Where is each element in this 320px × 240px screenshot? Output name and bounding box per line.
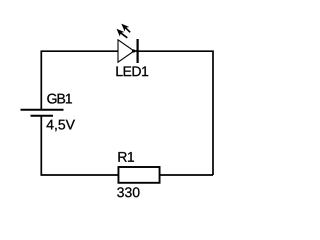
LED LED1: emission arrow lower: [117, 29, 128, 38]
wire: LED cathode across and down right side: [138, 51, 213, 175]
LED LED1: stub apex to cathode bar: [134, 50, 139, 52]
label R1: [118, 152, 134, 162]
wire: resistor R1 to battery negative: [41, 116, 118, 176]
wire: battery positive up and across to LED anode: [41, 51, 118, 110]
label GB1: [47, 94, 72, 104]
value 4,5V: [47, 120, 75, 131]
wire: bottom right to resistor R1: [160, 174, 213, 176]
LED LED1: cathode bar: [137, 39, 139, 63]
battery GB1: positive plate (long): [21, 109, 64, 111]
label LED1: [116, 66, 148, 76]
resistor R1 body: [118, 167, 159, 183]
value 330: [117, 187, 139, 197]
LED LED1: anode triangle: [118, 40, 134, 62]
LED LED1: junction dot at apex: [132, 49, 135, 52]
battery GB1: negative plate (short): [31, 115, 54, 117]
LED LED1: emission arrow upper: [121, 24, 130, 33]
